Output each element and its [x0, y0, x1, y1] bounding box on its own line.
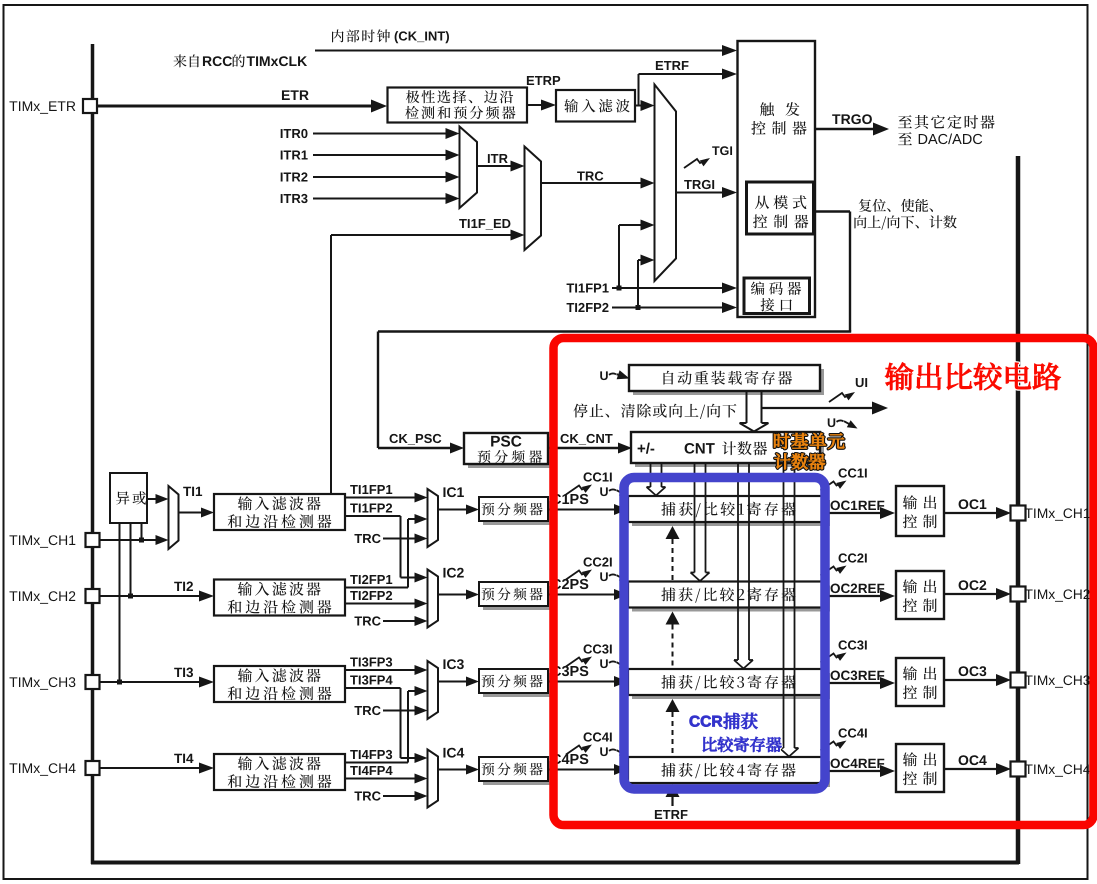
wire TRC into IC4 mux — [354, 792, 362, 801]
hollow arrow ARR to CNT — [746, 391, 748, 423]
wire: left vertical bus — [91, 44, 95, 864]
wire TRC into IC2 mux — [354, 617, 362, 626]
mux: trigger input select — [655, 85, 677, 282]
mux IC3 — [428, 661, 439, 719]
box: output control 4 — [896, 744, 944, 792]
wire IC2 to prescaler — [438, 594, 468, 596]
update event symbol below UI — [828, 418, 836, 427]
wire: update event to right — [762, 407, 875, 409]
pin TIMx_CH1 input — [9, 535, 17, 545]
box: auto-reload register — [633, 369, 824, 395]
mux IC4 — [428, 750, 439, 808]
wire OC2 — [959, 580, 969, 590]
wire TRGO — [832, 114, 840, 124]
wires ITR0-ITR3 into ITR mux — [281, 129, 283, 138]
wire OC2REF — [831, 584, 840, 594]
wire OC3REF — [831, 671, 840, 681]
wire TRC into IC1 mux — [354, 534, 362, 543]
wire TI1 — [99, 539, 158, 541]
box: prescaler 3 — [483, 673, 552, 697]
wire C4PS — [552, 754, 562, 764]
pin TIMx_CH3 input — [9, 677, 17, 687]
box: input filter and edge detector 1 — [214, 494, 345, 530]
interrupt CC2I left — [584, 557, 593, 566]
wire TI2 — [174, 582, 182, 591]
wire C1PS — [552, 494, 562, 504]
wire ETR — [97, 105, 373, 108]
pin TIMx_CH3 output — [1011, 673, 1026, 688]
label ETRP — [527, 76, 534, 85]
interrupt CC4I left — [584, 732, 593, 741]
label: reset enable updown count — [859, 199, 872, 212]
box: capture/compare register 1 — [632, 500, 830, 526]
interrupt CC3I right — [839, 640, 848, 649]
dashed capture transfer lines — [666, 526, 680, 539]
box: slave mode controller — [747, 182, 814, 234]
box: PSC prescaler — [468, 437, 552, 468]
box: CNT counter — [635, 436, 824, 467]
wire OC3 — [959, 666, 969, 676]
pin TIMx_CH2 input — [9, 591, 17, 601]
label: TIMxCLK from RCC — [173, 54, 186, 67]
wire TI2FP2 to encoder interface and mux — [567, 303, 575, 312]
wire OC4 — [959, 755, 969, 765]
label: to other timers / to DAC ADC — [898, 115, 912, 128]
wire TI1F_ED — [459, 219, 467, 228]
interrupt CC4I right — [839, 728, 848, 737]
wire ITR — [488, 154, 490, 163]
wire TI3 — [174, 668, 182, 677]
interrupt CC2I right — [839, 553, 848, 562]
wire: bottom bus — [91, 861, 1019, 865]
wire OC4REF — [831, 759, 840, 769]
mux IC1 — [428, 489, 439, 547]
interrupt CC3I left — [584, 644, 593, 653]
wire TRGI — [684, 180, 692, 189]
box: capture/compare register 2 — [632, 586, 830, 612]
wire TRC into IC3 mux — [354, 706, 362, 715]
wire: XOR output to TI1 mux — [147, 498, 158, 500]
styled label: CCR capture/compare registers — [690, 716, 700, 727]
box: output control 3 — [896, 658, 944, 706]
wire CK_INT into trigger controller — [315, 50, 724, 52]
pin TIMx_ETR — [9, 101, 17, 111]
box: input filter and edge detector 2 — [214, 580, 345, 616]
label: stop clear or updown — [573, 404, 587, 418]
interrupt TGI — [684, 159, 707, 168]
wires TI1FP1 TI1FP2 into IC muxes — [350, 485, 358, 494]
pin TIMx_CH2 output — [1011, 587, 1026, 602]
mux IC2 — [428, 570, 439, 628]
wire ETRP — [527, 104, 543, 106]
wire C2PS — [552, 579, 562, 589]
XOR input stubs from CH1 CH2 CH3 — [119, 523, 121, 682]
wires TI2FP1 TI2FP2 into IC muxes — [350, 575, 358, 584]
wire IC4 to prescaler — [438, 769, 468, 771]
pin TIMx_CH4 input — [9, 763, 17, 773]
box: output control 2 — [896, 571, 944, 619]
wire IC1 to prescaler — [438, 509, 468, 511]
wire ETRF into trigger mux — [639, 105, 643, 107]
wire ETRF into CCR4 — [666, 784, 680, 797]
styled label: output compare circuit — [885, 362, 913, 390]
mux: TRC select — [525, 147, 542, 251]
update event into ARR — [600, 371, 608, 380]
wire TI1 to filter — [179, 512, 204, 514]
wires TI4FP3 TI4FP4 into IC muxes — [350, 750, 358, 759]
wire ETRF to trigger controller — [635, 105, 639, 107]
wire OC1REF — [831, 501, 840, 511]
interrupt CC1I left — [584, 472, 593, 481]
mux: ITR select — [460, 127, 478, 209]
pin TIMx_CH4 output — [1011, 762, 1026, 777]
wire TI4 — [174, 754, 182, 763]
box: input filter — [556, 90, 635, 122]
blue annotation box: CCR registers — [624, 478, 825, 790]
box: trigger controller — [738, 41, 816, 317]
box: prescaler 2 — [483, 586, 552, 610]
box: capture/compare register 3 — [632, 673, 830, 699]
interrupt CC1I right — [839, 468, 848, 477]
box: output control 1 — [896, 486, 944, 536]
interrupt UI — [829, 393, 852, 402]
wire CK_CNT — [561, 434, 570, 443]
wire C3PS — [552, 666, 562, 676]
wires TI3FP3 TI3FP4 into IC muxes — [350, 658, 358, 667]
styled label: time base unit — [774, 433, 790, 449]
mux: TI1 select — [169, 486, 179, 549]
box: prescaler 1 — [483, 501, 552, 525]
box: prescaler 4 — [483, 761, 552, 785]
box: input filter and edge detector 3 — [214, 666, 345, 702]
box: input filter and edge detector 4 — [214, 754, 345, 790]
red annotation box: output compare circuit — [554, 338, 1094, 825]
hollow arrows CNT to CCR registers — [650, 463, 652, 487]
box: XOR — [110, 473, 147, 523]
wire: right vertical bus — [1016, 156, 1021, 864]
wire OC1 — [959, 499, 969, 509]
pin TIMx_CH1 output — [1011, 506, 1026, 521]
wire TRC to trigger mux — [577, 172, 585, 181]
box: polarity selection, edge detector and prescaler — [388, 88, 528, 123]
box: encoder interface — [744, 278, 810, 314]
box: capture/compare register 4 — [632, 761, 830, 787]
label: internal clock CK_INT — [332, 29, 344, 42]
wire IC3 to prescaler — [438, 681, 468, 683]
wire: slave mode controller to PSC clock CK_PSC — [814, 210, 851, 212]
wire TI1FP1 to encoder interface and mux — [567, 284, 575, 293]
